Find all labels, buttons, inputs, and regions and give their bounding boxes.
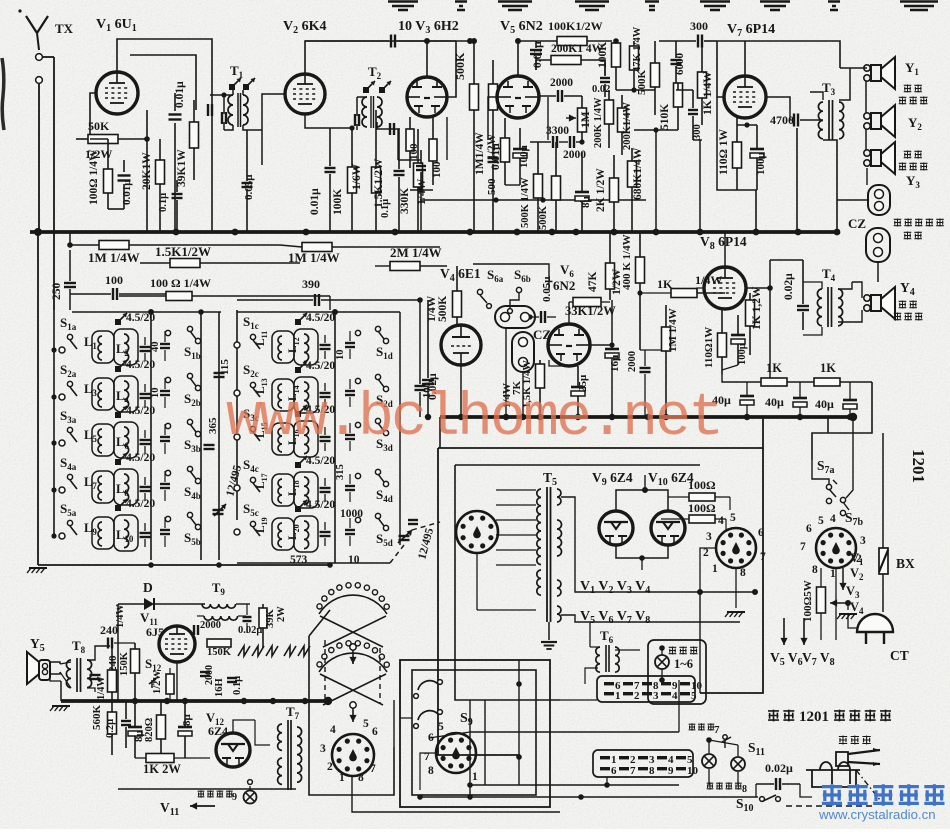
svg-text:0.05μ: 0.05μ <box>541 276 553 302</box>
capacitor 100 <box>112 288 114 300</box>
label mudan 1201 <box>768 710 779 722</box>
matrix mid vertical <box>150 310 152 560</box>
wire right box verticals <box>769 300 771 382</box>
resistor 500K vertical x474 <box>470 84 479 110</box>
resistor 500K 1/4W v4 <box>453 291 462 317</box>
tube V10 6Z4 <box>651 511 685 545</box>
wire v5 top <box>517 41 519 76</box>
svg-text:8: 8 <box>358 772 364 784</box>
capacitor 0.01u v2 <box>325 167 336 169</box>
resistor 1M 1/4W vertical x493 <box>489 84 498 110</box>
svg-text:BX: BX <box>896 556 915 571</box>
wire v8 screen node <box>769 260 771 288</box>
svg-text:4.5/20: 4.5/20 <box>306 499 335 511</box>
dashed S10 line <box>786 805 872 807</box>
trimmer 4.5/20 rrow1 <box>295 319 301 325</box>
svg-text:200K1/4W: 200K1/4W <box>622 102 633 150</box>
wire v5 plate right <box>539 95 556 97</box>
switch S12 contacts row <box>238 646 250 656</box>
svg-text:6: 6 <box>806 523 812 535</box>
svg-text:1K 2W: 1K 2W <box>143 762 181 776</box>
capacitor 10 top <box>390 35 392 48</box>
svg-text:7: 7 <box>370 763 376 775</box>
svg-text:1K 1,2W: 1K 1,2W <box>751 286 763 330</box>
capacitor 6000 x676 <box>671 59 682 61</box>
wires selector to T5 <box>496 489 536 491</box>
wire v8 plate right <box>746 288 770 300</box>
tuning unit box <box>309 636 394 795</box>
coil L13 L14 <box>272 379 294 411</box>
scan edge streak left <box>2 58 4 130</box>
svg-text:1M 1/4W: 1M 1/4W <box>667 308 679 352</box>
svg-text:573: 573 <box>290 554 308 566</box>
coil L17 L18 <box>272 474 294 506</box>
coil L7 L8 <box>92 471 114 503</box>
dashed gang links <box>324 640 326 700</box>
wire v2 bottom <box>305 114 330 128</box>
capacitor 250 <box>64 282 76 284</box>
svg-text:6: 6 <box>611 765 617 777</box>
svg-text:100μ: 100μ <box>755 152 767 176</box>
capacitor 0.1u <box>172 193 183 195</box>
resistor 500K 1/4W vert x538 <box>534 174 543 198</box>
wire t4 top <box>803 282 822 289</box>
antenna TX <box>26 16 37 33</box>
trimmer 4.5/20 row5 <box>115 505 121 511</box>
capacitor 25u <box>571 386 585 389</box>
svg-text:10: 10 <box>150 388 161 399</box>
svg-text:47K 1/4W: 47K 1/4W <box>632 26 643 72</box>
svg-text:3: 3 <box>706 531 712 543</box>
label dianchangji <box>839 736 847 745</box>
svg-text:1/4W: 1/4W <box>96 676 107 700</box>
power socket 2 <box>816 528 856 568</box>
svg-text:500K: 500K <box>453 52 467 80</box>
wire v1 left <box>90 93 96 139</box>
svg-text:1/4W: 1/4W <box>115 604 126 628</box>
cap cell b row2 <box>160 390 170 392</box>
wire v8 cathode bottom <box>722 375 770 382</box>
wire left bus to ground <box>37 232 39 565</box>
resistor 0.05u label cap vertical x247 <box>242 182 253 184</box>
resistor 1M 1/4W left <box>99 241 129 250</box>
tube V1 6U1 <box>96 72 138 114</box>
resistor 100ohm a <box>689 493 715 501</box>
resistor 2K1/2W vert x614 <box>610 178 619 202</box>
wire T3 bottom down <box>823 140 837 232</box>
svg-text:200K1 4W: 200K1 4W <box>551 43 604 55</box>
wire v7 grid left top <box>732 57 734 59</box>
wire v8 top to bus <box>724 232 726 267</box>
resistor 1K 1/4W vertical x702 <box>698 72 707 98</box>
tube V9 6Z4 <box>599 511 633 545</box>
wire T1 secondary to V2 <box>243 125 262 130</box>
svg-text:5: 5 <box>730 512 736 524</box>
resistor 1M 1/4W vert <box>662 327 671 351</box>
svg-text:40μ: 40μ <box>765 395 784 409</box>
wire v7 to T3 <box>766 97 790 110</box>
label waijie yangshengqi <box>894 218 902 226</box>
coil L9 L10 <box>92 517 114 549</box>
svg-text:40μ: 40μ <box>815 397 834 411</box>
wire right bottom verticals <box>678 680 680 732</box>
cap cell b row1 <box>160 343 170 345</box>
wire v1 plate top <box>117 39 212 100</box>
svg-text:2: 2 <box>703 547 709 559</box>
svg-text:www.crystalradio.cn: www.crystalradio.cn <box>818 807 936 822</box>
svg-text:300: 300 <box>692 124 703 140</box>
lamp assembly box <box>648 640 706 704</box>
capacitor 115 <box>214 372 225 374</box>
resistor 1.5K 1/4W v6 cathode <box>536 364 545 388</box>
matrix right column vertical <box>236 310 238 520</box>
coil L5 L6 <box>92 424 114 456</box>
trimmer 4.5/20 row2 <box>115 366 121 372</box>
svg-text:1M 1/4W: 1M 1/4W <box>288 250 340 265</box>
B+ bus wire y=417 <box>440 415 853 419</box>
svg-text:315: 315 <box>335 464 346 480</box>
resistor 1.5K1/2W x376 <box>372 167 381 193</box>
matrix Sxd switches <box>355 330 360 335</box>
svg-text:1~6: 1~6 <box>674 657 693 671</box>
svg-text:0.05μ: 0.05μ <box>243 174 255 200</box>
svg-text:6Z4: 6Z4 <box>208 724 228 738</box>
resistor 1K a <box>761 378 787 386</box>
svg-text:0.01μ: 0.01μ <box>309 188 321 215</box>
wire v1 screen <box>130 55 196 110</box>
wire s7 chain <box>812 460 829 484</box>
tube V5 6N2 <box>497 76 539 118</box>
capacitor 0.1u x399 <box>394 170 405 172</box>
matrix left column wires <box>53 310 55 537</box>
wire v3 bottom mesh <box>397 129 399 160</box>
svg-text:V2 6K4: V2 6K4 <box>283 19 327 36</box>
svg-text:5: 5 <box>818 515 824 527</box>
speaker Y2 <box>864 113 870 119</box>
resistor 50K 1/2W <box>88 135 118 144</box>
svg-text:CT: CT <box>890 648 909 663</box>
svg-text:6J5: 6J5 <box>146 625 164 639</box>
capacitor 100u x520 <box>513 148 527 151</box>
speaker Y4 <box>864 295 870 301</box>
wire t7 left <box>255 720 270 745</box>
resistor 680K1/4W vert x632 <box>628 161 637 187</box>
wire audio gnd <box>52 705 70 707</box>
capacitor x421 <box>416 165 426 167</box>
wire s6 down <box>505 328 507 417</box>
resistor 100K vertical x616 <box>612 43 621 67</box>
wires s9 <box>400 660 412 718</box>
svg-text:1/2W: 1/2W <box>486 133 498 160</box>
label qinjian kaiguan <box>707 782 714 789</box>
resistor 1/2W small <box>166 674 174 694</box>
capacitor 3300 <box>552 136 554 148</box>
wire x650 to v8 <box>640 349 666 351</box>
switch S6b <box>516 287 521 292</box>
t5 ground <box>548 622 550 640</box>
capacitor cell row1 <box>140 346 151 348</box>
resistor 1/6W vertical x352 <box>348 167 357 193</box>
capacitor T2 right <box>389 123 391 135</box>
svg-text:1K: 1K <box>766 361 782 375</box>
svg-text:330K: 330K <box>399 188 411 214</box>
tube V7 6P14 <box>724 76 766 118</box>
svg-text:16H: 16H <box>214 678 225 697</box>
svg-text:10: 10 <box>335 350 346 361</box>
capacitor 365 <box>204 444 215 446</box>
svg-text:16μ: 16μ <box>609 354 621 372</box>
speaker Y3 <box>864 150 870 156</box>
svg-text:560K: 560K <box>91 705 103 731</box>
capacitor at T1 left <box>207 104 209 116</box>
svg-text:2: 2 <box>634 690 640 702</box>
coil L15 L16 <box>272 423 294 455</box>
cap cell d row5 <box>345 529 355 531</box>
wire v2 plate to top <box>305 41 470 74</box>
svg-text:0.01μ: 0.01μ <box>174 81 186 108</box>
cropped title text fragments top edge <box>388 2 418 11</box>
terminal strip upper <box>597 676 695 702</box>
svg-text:7: 7 <box>800 541 806 553</box>
svg-text:4.5/20: 4.5/20 <box>306 455 335 467</box>
voltage selector socket <box>456 511 498 553</box>
capacitor 300 x693 <box>688 109 698 111</box>
resistor 500K vert x556 <box>552 176 561 200</box>
svg-text:250: 250 <box>51 283 63 301</box>
svg-text:820Ω: 820Ω <box>144 718 155 742</box>
svg-text:500K: 500K <box>437 296 449 322</box>
capacitor 8u a <box>128 726 142 729</box>
svg-text:100Ω: 100Ω <box>688 501 716 515</box>
capacitor 0.01u v1 grid <box>169 113 182 115</box>
switch S6a <box>477 289 482 294</box>
capacitor 300 top x700 <box>697 35 699 48</box>
wire collect line y200 <box>420 199 646 201</box>
wire t4 bottom <box>803 327 822 335</box>
svg-text:www.bclhome.net: www.bclhome.net <box>226 385 721 453</box>
wire v9 v10 bottom join <box>616 545 668 558</box>
cap cell d row4 <box>345 485 355 487</box>
power socket 1 pins labels <box>716 528 756 568</box>
svg-text:5: 5 <box>438 721 444 733</box>
svg-text:0.1μ: 0.1μ <box>232 676 243 695</box>
wire x656 down <box>655 130 657 232</box>
resistor 1K 2W <box>146 754 174 763</box>
capacitor cell row5 <box>140 532 151 534</box>
wire v2 left cathode <box>262 94 285 130</box>
wire v7 box top <box>717 41 724 97</box>
wire strips vertical <box>518 660 520 785</box>
svg-text:1: 1 <box>615 690 621 702</box>
matrix top wire left <box>72 311 221 313</box>
wire strip2 <box>470 731 679 733</box>
svg-text:1M 1/4W: 1M 1/4W <box>88 250 140 265</box>
svg-text:100Ω 1/4W: 100Ω 1/4W <box>88 149 100 205</box>
svg-text:2000: 2000 <box>550 77 573 89</box>
wire t8 secondary <box>87 646 110 660</box>
resistor 1/2W vert x505 with 100u <box>501 138 510 162</box>
svg-text:8: 8 <box>812 564 818 576</box>
wire lamp loop <box>709 740 738 745</box>
svg-text:1: 1 <box>472 771 478 783</box>
tube V8 6P14 <box>704 267 746 309</box>
wire x70 drop <box>69 232 71 245</box>
plug CT <box>857 614 893 632</box>
capacitor 0.02u t4 <box>797 305 809 307</box>
svg-text:6N2: 6N2 <box>553 278 575 293</box>
svg-text:TX: TX <box>55 21 74 36</box>
matrix bottom wire <box>38 564 330 566</box>
lamp7 <box>702 754 716 768</box>
svg-text:0.2μ: 0.2μ <box>105 719 116 738</box>
svg-text:3: 3 <box>860 535 866 547</box>
wire s6 mesh <box>473 264 549 290</box>
capacitor 2000 v11 <box>193 625 195 635</box>
coil L3 L4 <box>92 378 114 410</box>
matrix right border x400 <box>399 312 401 545</box>
cap cell d row2 <box>345 390 355 392</box>
audio box outline <box>118 788 296 790</box>
tube V12 6Z4 <box>216 733 250 767</box>
wire 212 to bus <box>211 195 213 232</box>
svg-text:1000: 1000 <box>340 508 363 520</box>
svg-text:39K: 39K <box>265 609 276 629</box>
svg-text:115: 115 <box>219 359 231 375</box>
capacitor 4700 <box>793 114 795 127</box>
coil L11 L12 <box>272 331 294 363</box>
wire v5 cathode left <box>488 97 497 140</box>
coil L19 L20 <box>272 518 294 550</box>
svg-text:1: 1 <box>830 568 836 580</box>
tube V6 6N2 <box>548 324 590 366</box>
svg-text:150K: 150K <box>119 651 130 676</box>
svg-text:1/6W: 1/6W <box>351 163 363 190</box>
capacitor 390 <box>314 294 316 306</box>
svg-text:3: 3 <box>653 690 659 702</box>
wire cz vert oval bottom <box>522 372 524 417</box>
svg-text:680K1/4W: 680K1/4W <box>632 147 644 200</box>
capacitor 240 <box>107 638 109 649</box>
capacitor 2000b <box>569 136 571 148</box>
capacitor 2000 v8 <box>640 367 651 369</box>
capacitor 0.02u v4 <box>422 379 434 381</box>
svg-text:47K: 47K <box>587 272 599 293</box>
svg-text:50K: 50K <box>88 119 110 133</box>
capacitor 16u <box>605 348 619 351</box>
matrix inner right bus <box>200 312 202 560</box>
capacitor 0.05u s6 <box>540 311 542 323</box>
svg-text:8: 8 <box>742 784 747 795</box>
capacitor cell row4 <box>140 486 151 488</box>
capacitor 100u v8 <box>731 334 745 337</box>
svg-text:100μ: 100μ <box>518 145 530 169</box>
svg-text:6: 6 <box>372 726 378 738</box>
svg-text:D: D <box>143 580 153 595</box>
svg-text:1201: 1201 <box>909 449 928 483</box>
svg-text:9: 9 <box>668 765 674 777</box>
svg-text:500K: 500K <box>636 70 648 96</box>
resistor 2M 1/4W <box>390 262 420 271</box>
wire v8 grid <box>697 288 704 293</box>
wires socket1 <box>700 548 716 592</box>
wire spk chain <box>865 81 867 113</box>
resistor 110ohm 1W vert <box>733 142 742 168</box>
svg-text:110Ω1W: 110Ω1W <box>703 327 715 368</box>
svg-text:5: 5 <box>363 718 369 730</box>
wire socket2 bottom <box>835 568 837 640</box>
wire x700 down <box>699 140 701 232</box>
wire ct left <box>848 614 857 628</box>
svg-text:510K: 510K <box>659 104 671 130</box>
svg-text:10: 10 <box>687 765 699 777</box>
svg-text:2: 2 <box>327 761 333 773</box>
resistor 100 x410 vertical <box>406 129 414 151</box>
capacitor 40u a <box>740 395 754 398</box>
svg-text:500K 1/4W: 500K 1/4W <box>520 177 531 228</box>
capacitor T2 left <box>354 114 356 126</box>
wire v6 top <box>568 302 570 324</box>
tube V4 6E1 <box>441 325 481 365</box>
svg-text:33K1/2W: 33K1/2W <box>565 304 616 318</box>
phono pickup <box>836 752 848 766</box>
capacitor cell row3 <box>140 439 151 441</box>
connector CZ bottom <box>866 228 890 262</box>
svg-text:110Ω 1W: 110Ω 1W <box>718 129 730 175</box>
S9 inner box <box>412 670 536 795</box>
watermark crystalradio blue CJK <box>822 784 842 806</box>
capacitor cell rrow1 <box>320 344 331 346</box>
wire strip connections <box>585 668 598 684</box>
cap cell b row5 <box>160 529 170 531</box>
cap cell b row3 <box>160 436 170 438</box>
long bottom wires <box>352 776 560 812</box>
wire v9 v10 top <box>616 490 668 511</box>
resistor 47K 1/4W vertical x634 <box>630 46 639 70</box>
svg-text:9: 9 <box>232 792 237 803</box>
fuse BX <box>879 548 888 574</box>
wire T3 top to speakers <box>810 92 823 100</box>
resistor 150K audio <box>131 649 140 673</box>
resistor 500K x655 vertical <box>651 63 660 87</box>
svg-text:CZ: CZ <box>848 216 866 231</box>
capacitor 0.01u v5 grid <box>530 49 542 51</box>
svg-text:4: 4 <box>718 515 724 527</box>
svg-text:2M 1/4W: 2M 1/4W <box>390 245 442 260</box>
wire v4 bottom <box>460 365 462 417</box>
S9 outer box <box>400 660 550 807</box>
trimmer 4.5/20 row4 <box>115 459 121 465</box>
wire bx <box>882 433 884 548</box>
svg-text:7: 7 <box>630 765 636 777</box>
wire CZ bottom down <box>877 262 879 282</box>
wire t6 wiring <box>589 622 591 647</box>
resistor 1K b <box>814 378 840 386</box>
wire v3 right side <box>447 41 456 97</box>
matrix mid vertical right x335 <box>334 310 336 563</box>
capacitor cell rrow5 <box>320 531 331 533</box>
matrix bottom right dashed <box>237 562 390 564</box>
svg-text:8: 8 <box>428 765 434 777</box>
coil L1 L2 <box>92 331 114 363</box>
resistor 200K 1/4W horizontal <box>551 56 581 65</box>
resistor 100ohm 5W <box>817 587 826 613</box>
audio ground bus wire y=701 <box>61 699 328 703</box>
resistor 100ohm b <box>689 515 715 523</box>
label zhishideng 9 <box>198 790 205 797</box>
matrix Sxb switches <box>165 330 170 335</box>
svg-text:7: 7 <box>714 724 720 736</box>
T5 secondary windings <box>557 489 561 505</box>
